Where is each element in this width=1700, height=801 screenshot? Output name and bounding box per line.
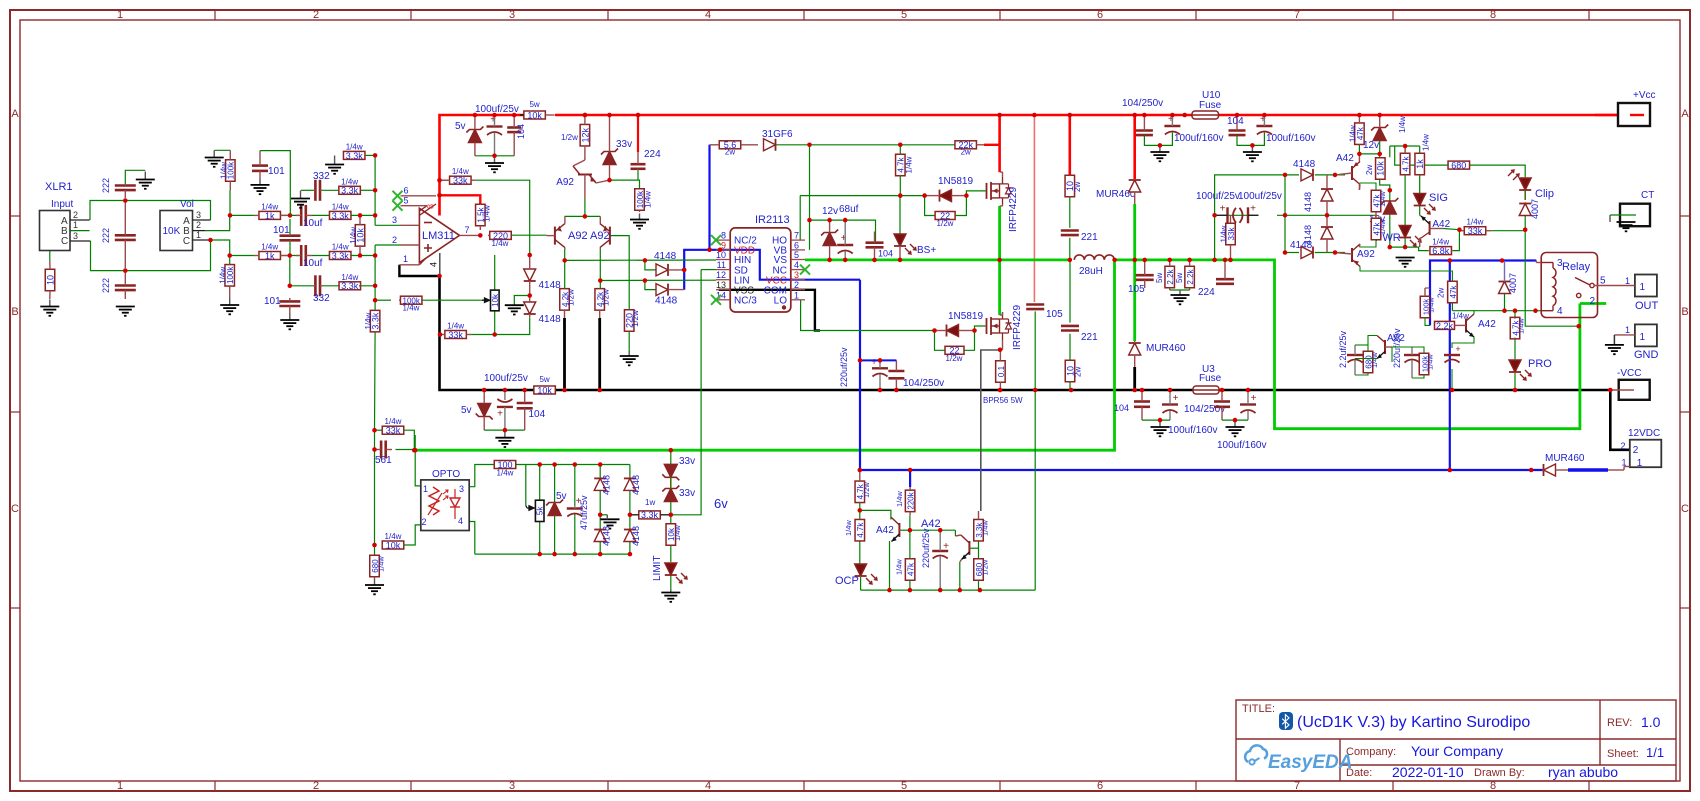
OPTO pin 3	[459, 484, 464, 494]
junction node blue ocp drop	[908, 468, 913, 473]
svg-text:5w: 5w	[1175, 273, 1184, 283]
Vol pin stub 1	[193, 239, 211, 241]
wire bridge row2 out	[1315, 252, 1345, 254]
wire CT gnd	[1610, 215, 1636, 222]
wire 4148q mid gnd	[600, 514, 607, 516]
black wire 4.2k left to bus	[563, 318, 566, 390]
capacitor 100uf160 a	[1164, 114, 1180, 135]
Vol pin 2	[196, 220, 201, 230]
svg-text:1/4w: 1/4w	[1370, 352, 1379, 368]
svg-text:5v: 5v	[455, 121, 466, 132]
junction node diff left col	[562, 258, 567, 263]
wire 5v3 top	[554, 465, 556, 503]
label 4.2k right 1/2w	[602, 289, 611, 306]
svg-text:33k: 33k	[1468, 226, 1483, 236]
Vol pin letter C	[183, 236, 190, 247]
svg-text:10uf: 10uf	[303, 258, 323, 269]
svg-text:1/4w: 1/4w	[1467, 218, 1484, 227]
relay switch	[1575, 278, 1594, 298]
junction node y175 left	[1283, 173, 1288, 178]
junction node ho row 22	[922, 193, 927, 198]
junction node green bus 105	[1142, 258, 1147, 263]
wire 4.7k drop a	[899, 145, 901, 155]
svg-text:220uf/25v: 220uf/25v	[921, 528, 931, 568]
svg-text:101: 101	[264, 296, 281, 307]
wire bridge left col	[1284, 175, 1286, 253]
wire HO row y195	[800, 195, 924, 197]
label 4.2k left 1/2w	[567, 289, 576, 306]
wire 31GF6 row	[776, 144, 956, 146]
svg-text:221: 221	[1081, 332, 1098, 343]
junction node 33v bottom	[607, 178, 612, 183]
junction node 4148 mid a	[598, 513, 603, 518]
junction node blackbus 104bank	[1140, 388, 1145, 393]
svg-text:C: C	[11, 503, 19, 515]
leads 5v neg	[483, 390, 485, 430]
wire 332-1 left	[301, 189, 314, 191]
port OUT	[1635, 275, 1657, 297]
wire 5v3 bot	[554, 516, 556, 554]
wire 33k-r right	[1491, 230, 1525, 232]
capacitor 221 lower	[1061, 326, 1079, 331]
label 2.2k b 5w	[1175, 273, 1184, 283]
wire 3.3k0 out	[366, 154, 376, 156]
resistor 4.7k sig	[1400, 146, 1410, 175]
svg-text:3: 3	[459, 484, 464, 494]
junction node relay green tap	[1576, 324, 1581, 329]
port +Vcc	[1618, 103, 1650, 126]
svg-text:5: 5	[901, 9, 907, 21]
leads 4148 rv1	[1326, 175, 1328, 215]
svg-text:4148: 4148	[654, 251, 677, 262]
wire 4.7k drop b	[899, 175, 901, 196]
svg-text:Relay: Relay	[1562, 261, 1591, 273]
label 561	[375, 455, 392, 466]
junction node y175 right	[1333, 173, 1338, 178]
MOSFET IRFP4229 upper	[987, 177, 1012, 205]
ground 100k bottom	[220, 298, 239, 314]
svg-text:1/4w: 1/4w	[332, 202, 349, 211]
svg-text:2w: 2w	[1365, 165, 1374, 175]
svg-text:1k: 1k	[1415, 159, 1425, 169]
ground cap222 bottom	[116, 307, 135, 316]
svg-text:OPTO: OPTO	[432, 469, 460, 480]
wire prot row right	[1473, 310, 1475, 312]
junction node blackbus 104-250	[894, 388, 899, 393]
junction node bank gnd b	[1233, 418, 1238, 423]
ground trimmer	[505, 305, 524, 314]
junction node ocp cap tap	[938, 528, 943, 533]
svg-text:28uH: 28uH	[1079, 266, 1103, 277]
relay pin5 lead	[1594, 285, 1635, 287]
resistor 10k opto	[382, 532, 404, 550]
fuse U3	[1193, 386, 1219, 394]
label U10	[1202, 90, 1221, 101]
junction node gnd link a	[1158, 143, 1163, 148]
resistor 100k bottom	[219, 265, 235, 298]
svg-text:1/4w: 1/4w	[895, 491, 904, 507]
label 105 lower	[1128, 284, 1145, 295]
svg-text:1/4w: 1/4w	[377, 556, 386, 572]
label LIMIT	[652, 555, 663, 581]
wire 47k-ocp bot	[909, 580, 911, 590]
svg-text:7: 7	[465, 225, 470, 235]
wire 5v neg bottom	[484, 429, 525, 431]
label A92 prot	[1387, 333, 1405, 344]
junction node 4148 mid b	[628, 513, 633, 518]
label OCP	[835, 575, 859, 587]
svg-text:A42: A42	[876, 525, 894, 536]
LM311 pin 4	[429, 262, 439, 267]
label 4148 q4	[631, 526, 641, 546]
resistor 4.7k ocp qw	[855, 519, 865, 541]
label 100k fb 1/4w	[403, 304, 420, 313]
capacitor 100uf25 ser a	[1215, 203, 1236, 223]
ground neg filter	[495, 430, 514, 447]
svg-text:2w: 2w	[1073, 182, 1082, 192]
ground 220hw	[620, 351, 639, 365]
junction node bus 224	[636, 113, 641, 118]
net label 6v	[714, 496, 728, 511]
wire sig col b	[1419, 175, 1421, 193]
resistor 10k 2w right	[1376, 157, 1386, 179]
svg-text:A42: A42	[1336, 153, 1354, 164]
wire 680L top	[374, 545, 376, 555]
ground 332 row1	[291, 191, 310, 208]
svg-text:OCP: OCP	[835, 575, 859, 587]
svg-text:A92: A92	[1357, 249, 1375, 260]
junction node green bus 2.2ka	[1167, 258, 1172, 263]
svg-text:C: C	[61, 236, 68, 247]
wire 100k-top to row1	[229, 191, 231, 216]
svg-text:CT: CT	[1641, 190, 1654, 201]
wire opto pin3 up	[469, 465, 494, 487]
label 2.2k prot aux	[1452, 311, 1469, 320]
12VDC pin1 lead	[1608, 467, 1630, 471]
resistor 4.7k gate	[896, 154, 914, 176]
svg-text:6v: 6v	[714, 496, 728, 511]
red drop to IRFP1 drain	[998, 115, 1001, 172]
svg-text:2w: 2w	[1074, 367, 1083, 377]
svg-text:31GF6: 31GF6	[762, 129, 793, 140]
resistor 4.7k ocp hw	[855, 470, 865, 503]
junction node bus 12k	[583, 113, 588, 118]
svg-text:100uf/160v: 100uf/160v	[1168, 425, 1218, 436]
svg-text:6: 6	[1097, 780, 1103, 792]
wire row4 col x290	[289, 256, 291, 286]
label 5v neg	[461, 405, 472, 416]
label 33v top	[616, 139, 632, 150]
leads MUR460 upper	[1134, 179, 1136, 204]
svg-text:4: 4	[458, 516, 463, 526]
junction node bus 100uf160b	[1262, 113, 1267, 118]
svg-text:3: 3	[509, 9, 515, 21]
label BPR56 5W	[983, 396, 1023, 405]
diode 4148 lin	[656, 284, 668, 296]
leads mosfet upper	[1000, 172, 1003, 206]
blue wire VDD riser to 5.6	[708, 145, 710, 250]
wire 100k prot1 bot	[1425, 317, 1430, 325]
resistor 2.2k 5w b	[1185, 261, 1195, 290]
leads 1N5819 upper	[925, 195, 967, 197]
svg-text:1/2w: 1/2w	[981, 559, 990, 575]
junction node blackbus mur2	[1132, 388, 1137, 393]
wire 22-2 left loop	[935, 331, 946, 351]
junction node ocp rail c	[938, 588, 943, 593]
svg-text:C: C	[1681, 503, 1689, 515]
wire 12v1 to 10k2w	[1379, 140, 1381, 157]
junction node 33k offset left	[438, 332, 443, 337]
svg-text:1/4w: 1/4w	[492, 239, 509, 248]
svg-text:8: 8	[1490, 780, 1496, 792]
junction node bus 22k-red	[997, 113, 1002, 118]
wire row4 to 332	[290, 285, 313, 287]
label 12v boot	[822, 206, 838, 217]
svg-text:GND: GND	[1634, 349, 1659, 361]
junction node blackbus 100uf160b2	[1246, 388, 1251, 393]
diode 4148 hin	[656, 264, 668, 276]
resistor 33k clip	[1459, 218, 1491, 236]
svg-text:2w: 2w	[961, 147, 971, 156]
capacitor 68uf	[837, 220, 853, 259]
svg-text:5: 5	[404, 196, 409, 206]
resistor 47k rv a	[1371, 190, 1381, 212]
svg-text:1/4w: 1/4w	[385, 417, 402, 426]
junction node boot 68uf	[843, 218, 848, 223]
IR2113 pin numbers left	[716, 231, 726, 301]
junction node diff right col	[598, 278, 603, 283]
svg-text:1/4w: 1/4w	[483, 205, 492, 222]
label 28uH	[1079, 266, 1103, 277]
svg-text:1/4w: 1/4w	[1220, 225, 1229, 242]
diode 4148 q4	[624, 530, 636, 542]
label 220uf/25v prot	[1392, 328, 1402, 368]
wire ocp mid row	[910, 529, 956, 531]
wire a42-1 base	[1443, 229, 1459, 230]
svg-text:10k: 10k	[386, 540, 401, 550]
ground CT	[1617, 222, 1636, 231]
label 104 boot	[878, 249, 893, 259]
junction node bus 100uf25	[473, 113, 478, 118]
svg-text:2022-01-10: 2022-01-10	[1392, 764, 1464, 780]
svg-text:Input: Input	[51, 199, 73, 210]
label 100k prot2 aux	[1426, 354, 1435, 370]
resistor 100k a92	[635, 189, 653, 212]
wire 4148q col2 mid	[629, 490, 631, 531]
label 31GF6	[762, 129, 793, 140]
wire HO riser	[799, 196, 801, 241]
resistor 10k limit	[666, 524, 676, 546]
junction node green bus riser	[1212, 258, 1217, 263]
svg-text:1k: 1k	[265, 211, 275, 221]
wire 100k fb right to trimmer	[421, 299, 482, 301]
wire right collector	[599, 249, 601, 289]
svg-text:12v: 12v	[822, 206, 838, 217]
transistor A42 ocp1	[891, 517, 901, 542]
wires protect mid	[1392, 347, 1452, 390]
label 4148 b	[539, 314, 562, 325]
wire left collector	[564, 249, 566, 289]
transistor A92 right	[600, 224, 610, 248]
XLR pin 3	[73, 231, 78, 241]
ground 100k top	[205, 151, 224, 167]
wire XLR B down	[49, 231, 51, 261]
IR2113 pin numbers right	[794, 231, 799, 301]
svg-text:4: 4	[429, 262, 439, 267]
svg-text:33k: 33k	[448, 330, 463, 340]
LED PWR arrows	[1410, 236, 1421, 246]
junction node noninv r4	[373, 284, 378, 289]
leads diff pair	[547, 216, 601, 249]
resistor 3.3k 1w	[630, 510, 671, 520]
label 2.2k a 5w	[1155, 273, 1164, 283]
svg-text:Company:: Company:	[1346, 746, 1396, 758]
leads MUR460 out	[1543, 469, 1569, 471]
-VCC inner lead	[1610, 389, 1634, 391]
svg-text:1/4w: 1/4w	[644, 191, 653, 208]
label A92-0	[556, 177, 574, 188]
leads zener 5v	[474, 115, 476, 156]
junction node row2 right	[288, 253, 293, 258]
svg-text:12k: 12k	[580, 127, 590, 142]
red drop MUR460#1	[1133, 115, 1136, 179]
resistor 0.1 source	[996, 350, 1006, 390]
wire bridge row2	[1285, 252, 1299, 254]
wire ocp led bot	[860, 578, 862, 591]
svg-text:7: 7	[1294, 780, 1300, 792]
lead 22k to red	[984, 144, 1000, 146]
junction node vs zener	[827, 258, 832, 263]
wire 2.2k join	[1170, 289, 1190, 291]
label +Vcc	[1633, 90, 1656, 101]
capacitor 222 mid	[115, 202, 136, 268]
junction node a92 emit rail	[583, 214, 588, 219]
label A92 bridge	[1357, 249, 1375, 260]
LED LIMIT arrows	[676, 573, 687, 583]
label 4007 relay	[1508, 273, 1518, 293]
svg-text:33k: 33k	[386, 426, 401, 436]
label 10uf row1	[303, 218, 323, 229]
label 222 bottom	[101, 278, 111, 293]
wire 4.7k-3 top	[1514, 311, 1516, 319]
fuse U10	[1192, 111, 1219, 119]
diode 4007 relay	[1499, 282, 1511, 294]
blue wire OCP drop	[909, 470, 911, 487]
wire 10k-lim bot	[670, 545, 672, 562]
svg-text:3: 3	[1557, 258, 1563, 269]
label Relay	[1562, 261, 1591, 273]
IR2113 right pin stubs	[791, 240, 805, 300]
svg-text:2: 2	[422, 517, 427, 527]
wire 4148q col2 bot	[629, 541, 631, 555]
svg-text:3: 3	[392, 215, 397, 225]
diode 4148 q2	[594, 530, 606, 542]
ground 100uf160 b	[1243, 145, 1262, 161]
svg-text:+: +	[497, 409, 503, 420]
svg-text:33v: 33v	[679, 488, 695, 499]
junction node ocp rail b	[908, 588, 913, 593]
svg-text:10k: 10k	[491, 293, 500, 307]
junction node y215 bridge	[1325, 213, 1330, 218]
IR2113 pin names right	[764, 236, 788, 307]
svg-text:IRFP4229: IRFP4229	[1012, 305, 1023, 350]
label 5v reg	[556, 491, 567, 502]
svg-text:4148: 4148	[1293, 159, 1316, 170]
junction node source 0.1	[998, 348, 1003, 353]
wire 47uf bot	[574, 514, 576, 554]
resistor 22k	[955, 140, 984, 156]
wire a92-0 collector down	[584, 199, 586, 216]
XLR pin 2	[73, 210, 78, 220]
ground 101 top-left	[251, 179, 270, 194]
label 100uf/160v b	[1266, 133, 1316, 144]
capacitor 104 boot	[866, 232, 884, 259]
wire 47k-2w bot	[1451, 303, 1453, 311]
label 10 2w upper aux	[1073, 182, 1082, 192]
resistor 1k row2	[254, 243, 290, 261]
resistor 10 2w upper	[1065, 175, 1075, 197]
relay pin 3	[1557, 258, 1563, 269]
svg-text:0.1: 0.1	[997, 365, 1006, 377]
junction node thickgreen left	[412, 448, 417, 453]
svg-text:221: 221	[1081, 232, 1098, 243]
trimmer 10k body	[491, 290, 500, 311]
junction node bus 47k right	[1357, 113, 1362, 118]
wire 5k bot	[539, 522, 541, 555]
junction node green bus left	[1068, 258, 1073, 263]
label 12v right1	[1363, 140, 1379, 151]
leads 12v right1	[1379, 115, 1381, 141]
wire 100 right	[516, 465, 526, 506]
svg-text:1/4w: 1/4w	[673, 525, 682, 541]
resistor 10 2w lower	[1065, 360, 1075, 382]
capacitor 101 row4	[279, 298, 300, 313]
svg-text:2: 2	[313, 9, 319, 21]
svg-text:4.7k: 4.7k	[1402, 155, 1411, 171]
leads LED OCP	[860, 564, 862, 578]
no-connect IR pin14	[711, 295, 721, 305]
junction node prot row 4007	[1502, 308, 1507, 313]
svg-text:4: 4	[794, 260, 799, 270]
junction node bus mur1	[1132, 113, 1137, 118]
LED BS+	[894, 234, 906, 246]
thick green MUR460#1 drop	[1133, 204, 1136, 341]
label 4148 rv1	[1303, 192, 1313, 212]
junction node ho row gate	[964, 193, 969, 198]
black bus -VCC main	[440, 276, 535, 390]
wire row2 junction to 1k	[230, 255, 254, 257]
LM311 pin 5	[404, 196, 409, 206]
label 101 mid	[273, 225, 290, 236]
junction node vs led	[898, 258, 903, 263]
label 4.7k ocp hw aux	[862, 482, 871, 498]
label 332 row1	[313, 171, 330, 182]
label IR2113	[755, 214, 790, 226]
wire opto col b	[415, 450, 421, 486]
svg-text:+Vcc: +Vcc	[1633, 90, 1656, 101]
OPTO pin 1	[423, 484, 428, 494]
resistor 680 ocp	[974, 559, 984, 581]
resistor 12k	[580, 115, 590, 146]
junction node fb 561	[372, 447, 377, 452]
label 680 prot aux	[1370, 352, 1379, 368]
junction node blue relay mid	[1500, 258, 1505, 263]
label 1N5819 upper	[938, 176, 973, 187]
wire lin diode drop	[645, 281, 656, 290]
label PRO	[1528, 358, 1552, 370]
label 47k rva aux	[1378, 191, 1387, 207]
svg-text:105: 105	[1046, 309, 1063, 320]
